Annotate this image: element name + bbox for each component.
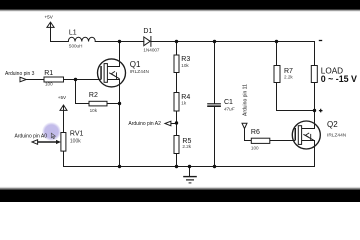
- svg-text:100k: 100k: [70, 138, 81, 144]
- svg-text:C1: C1: [224, 99, 233, 106]
- svg-text:1N4007: 1N4007: [143, 47, 160, 52]
- svg-text:Arduino pin 11: Arduino pin 11: [242, 84, 248, 116]
- svg-text:R6: R6: [251, 129, 260, 136]
- svg-text:2.2k: 2.2k: [284, 74, 293, 79]
- svg-text:+5V: +5V: [58, 95, 67, 100]
- svg-text:Q2: Q2: [327, 120, 338, 129]
- svg-text:IRLZ44N: IRLZ44N: [327, 132, 347, 138]
- svg-text:1k: 1k: [181, 101, 187, 106]
- svg-text:R1: R1: [44, 70, 53, 77]
- svg-text:+5V: +5V: [45, 15, 54, 20]
- svg-text:10k: 10k: [90, 108, 98, 113]
- svg-text:R2: R2: [89, 92, 98, 99]
- svg-text:Arduino pin 3: Arduino pin 3: [5, 71, 35, 77]
- svg-text:L1: L1: [69, 30, 77, 37]
- svg-text:Q1: Q1: [130, 60, 141, 69]
- svg-text:47uF: 47uF: [224, 106, 236, 111]
- svg-text:Arduino pin A2: Arduino pin A2: [128, 121, 161, 127]
- svg-text:D1: D1: [143, 28, 152, 35]
- svg-text:2.2k: 2.2k: [182, 144, 191, 149]
- svg-text:Arduino pin A0: Arduino pin A0: [15, 134, 48, 140]
- svg-text:0 ~ -15 V: 0 ~ -15 V: [321, 74, 357, 84]
- svg-text:10k: 10k: [181, 63, 189, 68]
- svg-text:RV1: RV1: [70, 131, 84, 138]
- svg-text:100: 100: [251, 145, 259, 150]
- svg-text:100: 100: [45, 82, 53, 87]
- svg-text:IRLZ44N: IRLZ44N: [130, 69, 150, 75]
- svg-text:500uH: 500uH: [69, 43, 83, 48]
